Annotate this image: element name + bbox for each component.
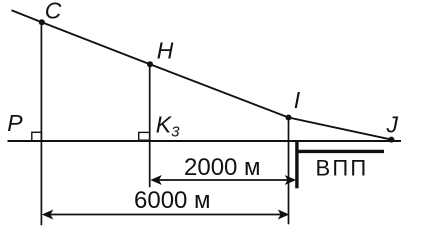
- vertical wire C to P base: [40, 22, 42, 225]
- svg-text:K3: K3: [156, 111, 180, 140]
- svg-text:I: I: [294, 87, 301, 113]
- svg-text:P: P: [7, 110, 23, 136]
- runway threshold bar: [295, 142, 298, 189]
- glide path line C-H-I-J: [12, 10, 392, 139]
- dimension arrow 2000 m: [150, 175, 296, 185]
- dimension arrow 6000 m: [42, 210, 289, 220]
- svg-text:H: H: [157, 37, 174, 63]
- node H dot: [147, 61, 153, 67]
- vertical wire I to ground: [288, 118, 290, 225]
- node C dot: [39, 19, 45, 25]
- right angle mark at P: [32, 132, 42, 141]
- runway top line: [297, 150, 384, 153]
- svg-text:J: J: [386, 111, 399, 137]
- right angle mark at K3: [139, 132, 150, 140]
- svg-text:C: C: [45, 0, 62, 23]
- svg-text:2000 м: 2000 м: [184, 154, 261, 181]
- svg-text:6000 м: 6000 м: [134, 187, 211, 214]
- svg-text:ВПП: ВПП: [316, 156, 369, 181]
- vertical wire H to K3 base: [149, 64, 151, 187]
- ground line: [8, 140, 402, 142]
- node I dot: [286, 115, 292, 121]
- node J dot: [388, 137, 394, 143]
